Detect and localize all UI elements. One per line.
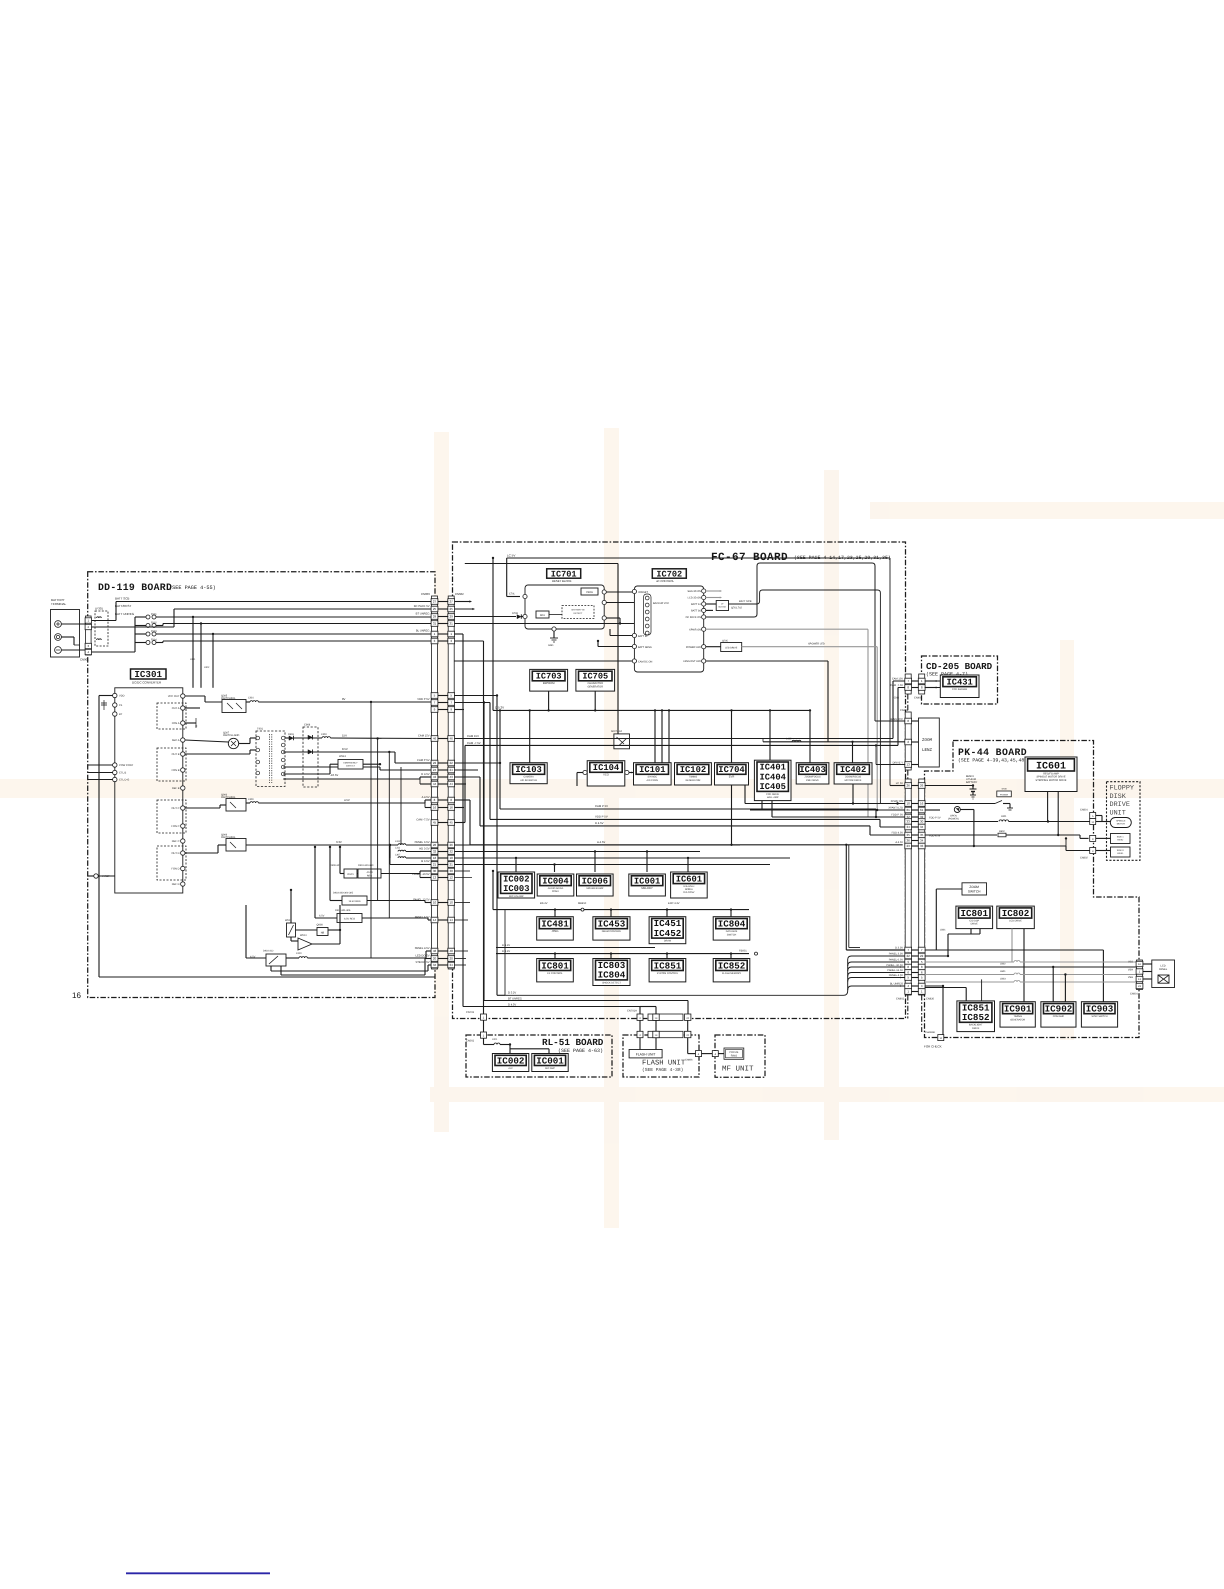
- svg-text:BL UNREG: BL UNREG: [890, 982, 903, 985]
- svg-text:FE CONTROL: FE CONTROL: [547, 972, 563, 975]
- svg-text:D919-320-330: D919-320-330: [358, 864, 374, 867]
- connector CN002 on RL-51: [481, 1032, 487, 1038]
- wire CN702 to CN002: [483, 1020, 485, 1032]
- svg-text:A/D INVERTER: A/D INVERTER: [520, 779, 537, 782]
- svg-text:SERIAL: SERIAL: [685, 888, 694, 891]
- side 1 head: [1111, 834, 1131, 844]
- svg-text:LC 5V: LC 5V: [507, 553, 515, 557]
- connector CN802: [1090, 835, 1096, 841]
- wire IC402 feed: [852, 742, 854, 763]
- svg-text:CN4: CN4: [894, 697, 900, 700]
- svg-text:D 4.5V: D 4.5V: [421, 773, 429, 776]
- svg-text:CN003: CN003: [421, 592, 430, 596]
- IC401 IC404 IC405 ccd drive hall amp: [754, 760, 791, 800]
- svg-text:8.5V: 8.5V: [342, 747, 348, 751]
- svg-text:COM AMP: COM AMP: [1053, 1015, 1065, 1018]
- svg-text:DETECT: DETECT: [574, 612, 583, 615]
- svg-text:C70L: C70L: [509, 593, 516, 596]
- svg-text:16: 16: [920, 802, 924, 806]
- svg-text:CN701A: CN701A: [627, 1010, 637, 1013]
- wire vertical feed A: [370, 702, 372, 958]
- svg-text:DETECT: DETECT: [346, 764, 355, 767]
- wire row 16 stub: [454, 807, 464, 809]
- connector CN901 strip: [85, 616, 91, 655]
- IC002 alc: [492, 1054, 528, 1072]
- connector CN920 on PK-44: [918, 779, 925, 995]
- wire panel branch 962: [848, 962, 906, 966]
- svg-text:27: 27: [450, 600, 454, 604]
- svg-text:(SEE PAGE 4-55): (SEE PAGE 4-55): [169, 585, 216, 591]
- svg-text:OUT C: OUT C: [171, 807, 179, 810]
- wire sens vcc: [875, 720, 905, 722]
- battery terminal minus contact: [55, 647, 62, 654]
- svg-text:LB02: LB02: [1000, 963, 1006, 966]
- connector CN902 on FC-67 to PK-44: [905, 779, 912, 995]
- svg-text:IC801: IC801: [960, 908, 988, 919]
- svg-text:18: 18: [907, 802, 911, 806]
- svg-text:IC902: IC902: [1045, 1003, 1073, 1014]
- connector MF pin: [712, 1051, 718, 1057]
- IC702 body: [634, 586, 703, 672]
- svg-text:CONV.: CONV.: [552, 890, 560, 893]
- wire BATT/REST feed: [92, 626, 175, 628]
- svg-text:BATT SCB: BATT SCB: [739, 600, 752, 603]
- svg-text:LENS RST LED: LENS RST LED: [683, 660, 701, 663]
- svg-text:CAM -7.5V: CAM -7.5V: [467, 741, 481, 745]
- svg-text:21: 21: [433, 863, 437, 867]
- svg-text:L001: L001: [492, 1038, 498, 1041]
- svg-text:EVR: EVR: [729, 776, 735, 779]
- svg-text:BLOCK: BLOCK: [719, 606, 727, 609]
- svg-text:VDD P 5V: VDD P 5V: [595, 814, 608, 818]
- svg-text:33: 33: [920, 844, 924, 848]
- svg-text:EEPROM: EEPROM: [543, 682, 555, 685]
- svg-text:IC403: IC403: [799, 765, 825, 775]
- svg-text:LENZ: LENZ: [922, 748, 933, 753]
- svg-text:31: 31: [433, 622, 437, 626]
- svg-text:STB DO 5V: STB DO 5V: [415, 961, 429, 964]
- IC851 system control: [649, 959, 686, 982]
- svg-text:27: 27: [433, 600, 437, 604]
- svg-text:LCD 3D ON: LCD 3D ON: [688, 597, 702, 600]
- svg-text:CN806: CN806: [685, 1059, 693, 1062]
- svg-text:23: 23: [907, 844, 911, 848]
- svg-text:BACKUP VCC: BACKUP VCC: [653, 602, 669, 605]
- wire XPOWER LED: [742, 646, 878, 648]
- svg-text:CN702: CN702: [466, 1011, 475, 1014]
- svg-text:PK-44 BOARD: PK-44 BOARD: [958, 747, 1027, 758]
- svg-text:IC852: IC852: [962, 1012, 990, 1023]
- svg-text:BATT UNREG: BATT UNREG: [115, 612, 135, 616]
- wire LC 5V row PK-44: [925, 785, 973, 787]
- svg-text:13.5V REG: 13.5V REG: [348, 900, 360, 903]
- svg-text:26: 26: [433, 843, 437, 847]
- svg-text:35: 35: [907, 833, 911, 837]
- svg-text:IC903: IC903: [1086, 1003, 1114, 1014]
- svg-text:CN802: CN802: [1080, 857, 1088, 860]
- svg-text:8V: 8V: [342, 697, 346, 701]
- svg-text:46: 46: [450, 737, 454, 741]
- spindle motor: [1110, 818, 1131, 828]
- inductor L303 wire CAM 15V: [294, 737, 323, 739]
- svg-text:48: 48: [433, 949, 437, 953]
- IC301 right pins: [181, 694, 185, 698]
- IC104 vco: [587, 761, 625, 786]
- svg-text:61: 61: [907, 808, 911, 812]
- svg-text:10: 10: [450, 901, 454, 905]
- svg-text:FON B: FON B: [172, 769, 180, 772]
- svg-text:SEC A: SEC A: [172, 739, 180, 742]
- IC902 com amp: [1041, 1002, 1076, 1027]
- svg-text:IC453: IC453: [598, 918, 626, 929]
- svg-text:CN602: CN602: [455, 592, 464, 596]
- FC-67 right border dash-dot: [907, 694, 909, 712]
- svg-text:-10.5V: -10.5V: [366, 871, 373, 874]
- svg-text:A 4.5V: A 4.5V: [597, 840, 605, 844]
- svg-text:D 3-3V: D 3-3V: [502, 950, 510, 953]
- wires IC601 to drive: [1047, 792, 1049, 822]
- svg-text:DRIVE: DRIVE: [971, 923, 979, 926]
- svg-text:BATT S1: BATT S1: [691, 603, 702, 606]
- wires to IC851: [965, 988, 967, 1001]
- svg-text:IC601: IC601: [676, 874, 702, 884]
- svg-text:W914: W914: [300, 934, 307, 937]
- svg-text:MOTOR: MOTOR: [1117, 823, 1126, 826]
- svg-text:(SEE PAGE 4-38): (SEE PAGE 4-38): [642, 1067, 683, 1073]
- wire IC703 to bus: [548, 691, 550, 710]
- svg-text:DRIVE Y: DRIVE Y: [893, 761, 904, 764]
- svg-text:BATT/REST: BATT/REST: [115, 604, 131, 608]
- svg-text:FON D: FON D: [171, 868, 179, 871]
- wires into IC702 left: [610, 635, 632, 637]
- wires between right strips: [911, 680, 919, 682]
- IC601 spindle/stepping drive: [1025, 757, 1077, 792]
- battery terminal chassis contact: [55, 634, 62, 641]
- svg-text:10: 10: [433, 901, 437, 905]
- svg-text:IC701: IC701: [551, 569, 577, 579]
- svg-text:VDD: VDD: [119, 695, 125, 698]
- svg-text:SPEAKER AMP: SPEAKER AMP: [586, 887, 603, 890]
- svg-text:FON A: FON A: [172, 722, 180, 725]
- IC704 evr: [715, 763, 749, 785]
- svg-text:L303: L303: [321, 733, 327, 736]
- svg-text:CAM 15V: CAM 15V: [418, 734, 430, 737]
- svg-text:-10.5V: -10.5V: [330, 773, 338, 777]
- connector CN4A on FC-67 to CD-205: [905, 674, 912, 694]
- svg-text:S007-134: S007-134: [611, 730, 622, 733]
- svg-text:B 3-5V: B 3-5V: [421, 860, 429, 863]
- connector CN701B: [648, 1031, 683, 1037]
- IC801 lcd dsp drive: [956, 906, 993, 929]
- open power detector: [954, 807, 960, 813]
- svg-text:OSC1: OSC1: [347, 873, 354, 876]
- svg-text:JPEG: JPEG: [551, 930, 558, 933]
- svg-text:OUT D: OUT D: [171, 852, 179, 855]
- IC852 flash memory: [713, 959, 750, 982]
- wire LC 5V into strip: [890, 785, 905, 787]
- IC702 right pins with labels: [702, 589, 706, 593]
- connector CN901 lcd: [1136, 960, 1143, 990]
- svg-text:34: 34: [907, 825, 911, 829]
- wire bus drop to IC401: [769, 710, 771, 760]
- svg-text:VSH: VSH: [1128, 976, 1133, 979]
- svg-text:DC/DC CONVERTER: DC/DC CONVERTER: [132, 680, 162, 684]
- svg-text:FLASH MEMORY: FLASH MEMORY: [722, 972, 741, 975]
- svg-text:GENERATOR: GENERATOR: [1010, 1018, 1025, 1021]
- svg-text:MF UNIT: MF UNIT: [722, 1066, 754, 1074]
- svg-text:CN002: CN002: [466, 1040, 475, 1043]
- connector CN602 on FC-67: [448, 596, 455, 969]
- svg-text:30: 30: [450, 869, 454, 873]
- svg-text:POWER: POWER: [1000, 793, 1009, 796]
- IC701 label: [547, 569, 581, 578]
- wire row 5 stub: [454, 695, 497, 697]
- svg-text:OUT A: OUT A: [172, 707, 180, 710]
- svg-text:IC901: IC901: [1004, 1003, 1032, 1014]
- svg-text:IC703: IC703: [536, 672, 562, 682]
- svg-text:(SEE PAGE 4-39,43,45,48,49): (SEE PAGE 4-39,43,45,48,49): [958, 758, 1036, 764]
- svg-text:SIDE 1: SIDE 1: [1117, 836, 1125, 839]
- wire panel branch 967: [848, 967, 906, 971]
- svg-text:12: 12: [433, 876, 437, 880]
- svg-text:CD-205 BOARD: CD-205 BOARD: [926, 661, 993, 672]
- wire IC701 to IC702 upper: [606, 591, 634, 593]
- svg-text:Q908: Q908: [317, 924, 324, 927]
- svg-text:IC405: IC405: [759, 782, 785, 792]
- svg-text:6.5V: 6.5V: [319, 915, 325, 918]
- svg-text:PANEL 3.3V: PANEL 3.3V: [889, 952, 904, 955]
- svg-text:30: 30: [433, 869, 437, 873]
- svg-text:L801: L801: [1001, 815, 1007, 818]
- svg-text:16: 16: [72, 991, 81, 1000]
- svg-text:LB03: LB03: [1000, 978, 1006, 981]
- svg-text:HALL AMP: HALL AMP: [767, 796, 779, 799]
- IC403 zoom/focus pre drive: [796, 763, 829, 784]
- svg-text:POW CONT: POW CONT: [119, 764, 134, 767]
- svg-text:FB001: FB001: [739, 949, 747, 952]
- svg-text:GENERATOR: GENERATOR: [685, 779, 700, 782]
- wire SHS 3D ON stub: [706, 590, 720, 592]
- svg-text:LCD DRIVE: LCD DRIVE: [1009, 920, 1022, 923]
- svg-text:CAM -7.5V: CAM -7.5V: [416, 818, 429, 821]
- svg-text:12: 12: [450, 876, 454, 880]
- IC004 audio ad/da conv: [537, 874, 574, 896]
- svg-text:D916-312: D916-312: [263, 950, 274, 953]
- svg-text:D/A CONV: D/A CONV: [683, 891, 694, 894]
- wire second feed to CN701A: [655, 1007, 657, 1015]
- svg-text:IC452: IC452: [654, 928, 682, 939]
- svg-text:18: 18: [433, 856, 437, 860]
- svg-text:POWER LED: POWER LED: [686, 646, 701, 649]
- zoom switch: [962, 883, 987, 895]
- svg-text:L311: L311: [395, 847, 401, 850]
- svg-text:IC481: IC481: [541, 918, 569, 929]
- IC102 timing generator: [675, 763, 712, 785]
- svg-text:W913: W913: [339, 755, 346, 758]
- svg-text:FLASH UNIT: FLASH UNIT: [642, 1060, 686, 1068]
- wire row 44 stub: [454, 783, 466, 785]
- wire bus drop to IC403: [809, 710, 811, 762]
- svg-text:L902: L902: [204, 666, 210, 669]
- wire IC705 to bus: [594, 691, 596, 710]
- svg-text:BATT SCB: BATT SCB: [115, 596, 129, 600]
- svg-text:IC001: IC001: [634, 876, 660, 886]
- svg-text:LED DRIVE: LED DRIVE: [725, 646, 738, 649]
- wire side0 feed: [1065, 846, 1067, 851]
- IC402 zoom/focus motor drive: [834, 763, 872, 784]
- svg-text:XRESET: XRESET: [638, 591, 648, 594]
- wire charge check: [942, 986, 944, 1035]
- svg-text:BATTERY IN: BATTERY IN: [572, 609, 585, 612]
- svg-text:R802: R802: [999, 830, 1005, 833]
- svg-text:RL-51 BOARD: RL-51 BOARD: [542, 1037, 604, 1048]
- wire LED DO 5V: [270, 966, 272, 971]
- wire zoom switch feed: [936, 888, 962, 890]
- IC705 character generator: [576, 669, 615, 691]
- wire IC701 to IC702 lower: [606, 602, 634, 604]
- svg-text:IC003: IC003: [503, 884, 529, 894]
- wire vertical feed D: [400, 767, 402, 845]
- svg-text:XPWR ON: XPWR ON: [891, 800, 904, 803]
- svg-text:FOR CHECK: FOR CHECK: [924, 1045, 942, 1049]
- svg-text:L402: L402: [786, 738, 792, 741]
- svg-text:CAM 15V: CAM 15V: [892, 678, 903, 681]
- svg-text:Q761,762: Q761,762: [731, 607, 743, 610]
- svg-text:VDD P 5V: VDD P 5V: [417, 698, 429, 701]
- wire XPWR ON long: [706, 628, 868, 630]
- svg-text:DD-119 BOARD: DD-119 BOARD: [98, 582, 172, 593]
- svg-text:LC 5V: LC 5V: [896, 782, 903, 785]
- svg-text:SHOCK DETECT: SHOCK DETECT: [602, 981, 621, 984]
- svg-text:RING: RING: [731, 1055, 737, 1058]
- wire battery contacts to CN901: [61, 623, 85, 625]
- wire panel branch 977.5: [848, 978, 906, 982]
- LF block Q761 762: [706, 603, 716, 605]
- svg-text:GND: GND: [548, 644, 554, 647]
- svg-text:D 5.2V: D 5.2V: [508, 992, 516, 995]
- svg-text:D 3.3V: D 3.3V: [895, 946, 903, 949]
- svg-text:REF B: REF B: [172, 787, 180, 790]
- wires rows into row1 ICs: [454, 844, 740, 846]
- diode S708 wire BT UNREG entry: [454, 616, 516, 618]
- svg-text:IC804: IC804: [598, 970, 626, 981]
- svg-text:DRAM: DRAM: [664, 940, 671, 943]
- wire BATT SCB feed: [92, 620, 117, 622]
- zoom lenz block: [919, 718, 940, 767]
- svg-text:IC852: IC852: [718, 960, 746, 971]
- svg-text:PANEL 4.5V: PANEL 4.5V: [415, 947, 430, 950]
- svg-text:FDD P 5V: FDD P 5V: [891, 813, 903, 816]
- svg-text:IC402: IC402: [840, 765, 866, 775]
- svg-text:D917-301-306: D917-301-306: [335, 909, 351, 912]
- svg-text:61: 61: [920, 808, 924, 812]
- connector lens on FC-67: [905, 712, 912, 770]
- IC801 fe control: [537, 959, 574, 982]
- svg-text:BATTERY: BATTERY: [966, 781, 978, 784]
- svg-text:VCC OUT: VCC OUT: [168, 695, 180, 698]
- wire open power to A 4.5V: [960, 809, 974, 811]
- svg-text:VCO: VCO: [603, 774, 609, 777]
- PK-44 left strip continuation: [921, 995, 923, 1032]
- wire IC401 pin rows: [761, 801, 763, 810]
- svg-text:DRIVE: DRIVE: [1110, 801, 1130, 809]
- svg-text:TERMINAL: TERMINAL: [51, 602, 67, 606]
- svg-text:C908: C908: [304, 724, 311, 727]
- svg-text:36: 36: [907, 839, 911, 843]
- svg-text:HEAD: HEAD: [1117, 852, 1123, 855]
- IC702 label: [652, 569, 686, 578]
- wires CN701A to CN701B: [639, 1020, 641, 1031]
- wire row 24 stub: [454, 769, 478, 771]
- svg-text:D 4-3V: D 4-3V: [502, 944, 510, 947]
- switch S700 POWER: [997, 791, 1012, 797]
- svg-text:32: 32: [450, 850, 454, 854]
- IC802 lcd drive: [997, 906, 1035, 929]
- ground below IC701: [553, 631, 555, 638]
- switch symbol FON A: [185, 722, 196, 724]
- svg-text:ERC 3.3V: ERC 3.3V: [668, 902, 680, 905]
- svg-text:FDD P 5V: FDD P 5V: [929, 817, 941, 820]
- wire OUT A stub: [185, 707, 200, 709]
- battery terminal plus contact: [55, 621, 62, 628]
- inductor L311 HD 3-5V: [389, 844, 391, 846]
- connector CN401 on CD-205: [918, 674, 925, 694]
- IC803 IC804 shock detect: [593, 959, 630, 986]
- wire PANEL 6.5V: [315, 917, 337, 919]
- svg-text:CN901: CN901: [1130, 993, 1138, 996]
- svg-text:IC002: IC002: [503, 874, 529, 884]
- wire B 3-5V pair: [389, 858, 391, 865]
- IC703 eeprom: [530, 669, 568, 691]
- board PK-44 outline: [925, 741, 1140, 1038]
- svg-text:44: 44: [433, 782, 437, 786]
- svg-text:CCD IMAGER: CCD IMAGER: [952, 688, 968, 691]
- svg-text:26: 26: [450, 843, 454, 847]
- svg-text:24: 24: [433, 768, 437, 772]
- svg-text:NB: NB: [321, 931, 325, 934]
- svg-text:A 4.5V: A 4.5V: [895, 841, 903, 844]
- wire CN806 to MF pin: [702, 1053, 713, 1055]
- svg-text:LF301: LF301: [95, 607, 103, 611]
- unit MF outline: [715, 1035, 765, 1077]
- IC103 camera a/d inverter: [510, 763, 547, 784]
- svg-text:L304: L304: [248, 696, 254, 699]
- svg-text:A/D CONV: A/D CONV: [647, 779, 659, 782]
- svg-text:31: 31: [450, 622, 454, 626]
- wire 3.3V rail: [246, 844, 398, 846]
- wire Q307 to T901: [239, 743, 250, 745]
- svg-text:VSH: VSH: [1128, 968, 1133, 971]
- wire row7 to IC903: [925, 949, 1104, 951]
- svg-text:IC101: IC101: [639, 765, 665, 775]
- svg-text:22: 22: [907, 954, 911, 958]
- svg-text:XPOWER LED: XPOWER LED: [808, 643, 825, 646]
- wire panel branch 986: [848, 986, 906, 990]
- svg-text:34: 34: [920, 825, 924, 829]
- wires strips to IC431: [925, 680, 936, 682]
- wire VDD loop: [99, 695, 113, 697]
- svg-text:LB01: LB01: [940, 929, 946, 932]
- svg-text:IC103: IC103: [515, 765, 541, 775]
- svg-text:18: 18: [450, 856, 454, 860]
- svg-text:REF C: REF C: [172, 840, 180, 843]
- IC701 body: [525, 585, 604, 629]
- wire panel supply trunk: [505, 956, 905, 995]
- IC701 internal reset comparator: [581, 588, 598, 595]
- svg-text:PANEL 4.5V: PANEL 4.5V: [889, 974, 904, 977]
- wire FDD 4.5V: [925, 834, 997, 836]
- side 0 head: [1111, 847, 1131, 857]
